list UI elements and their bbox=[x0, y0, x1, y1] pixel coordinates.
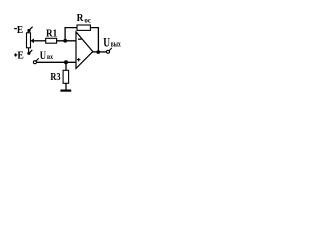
potentiometer body bbox=[27, 33, 31, 48]
op-amp U1 triangle bbox=[76, 32, 93, 69]
svg-text:R3: R3 bbox=[50, 71, 61, 83]
terminal -E tick bbox=[29, 27, 32, 30]
wire R3 to ground bbox=[65, 83, 67, 89]
wire R1 to op-amp inverting input bbox=[57, 40, 77, 42]
terminal Uvx tick bbox=[36, 58, 39, 61]
svg-text:U: U bbox=[40, 49, 47, 62]
terminal +E dot bbox=[27, 52, 30, 55]
terminal +E tick bbox=[29, 50, 32, 53]
svg-text:U: U bbox=[103, 36, 110, 50]
op-amp minus sign bbox=[78, 38, 81, 40]
node C junction bbox=[96, 50, 100, 54]
resistor Roc body bbox=[77, 25, 90, 30]
resistor R1 body bbox=[46, 38, 57, 43]
svg-text:вх: вх bbox=[47, 52, 53, 61]
node B junction bbox=[64, 60, 68, 64]
svg-text:R1: R1 bbox=[46, 27, 57, 39]
wire node B to R3 bbox=[65, 62, 67, 70]
op-amp plus sign bbox=[77, 59, 81, 61]
svg-text:R: R bbox=[77, 12, 85, 24]
potentiometer top lead bbox=[27, 30, 29, 32]
wire op-amp output bbox=[93, 51, 107, 53]
node A junction bbox=[63, 39, 67, 43]
svg-text:E: E bbox=[17, 49, 23, 61]
potentiometer wiper arrow bbox=[31, 38, 34, 43]
wire feedback loop bbox=[65, 28, 98, 52]
svg-text:вых: вых bbox=[111, 40, 121, 49]
wire wiper to R1 bbox=[34, 40, 46, 42]
resistor R3 body bbox=[63, 70, 69, 83]
terminal -E dot bbox=[27, 29, 30, 32]
wire Uvx to op-amp plus input bbox=[36, 61, 76, 63]
terminal Uvx circle bbox=[33, 61, 36, 64]
terminal Uvyx circle bbox=[107, 50, 110, 53]
terminal Uvyx tick bbox=[109, 48, 112, 51]
potentiometer bottom lead bbox=[28, 48, 30, 53]
svg-text:ос: ос bbox=[84, 15, 91, 24]
label +E plus sign bbox=[14, 54, 17, 56]
svg-text:E: E bbox=[17, 24, 23, 36]
ground bbox=[60, 89, 71, 91]
label -E minus sign bbox=[14, 28, 17, 30]
